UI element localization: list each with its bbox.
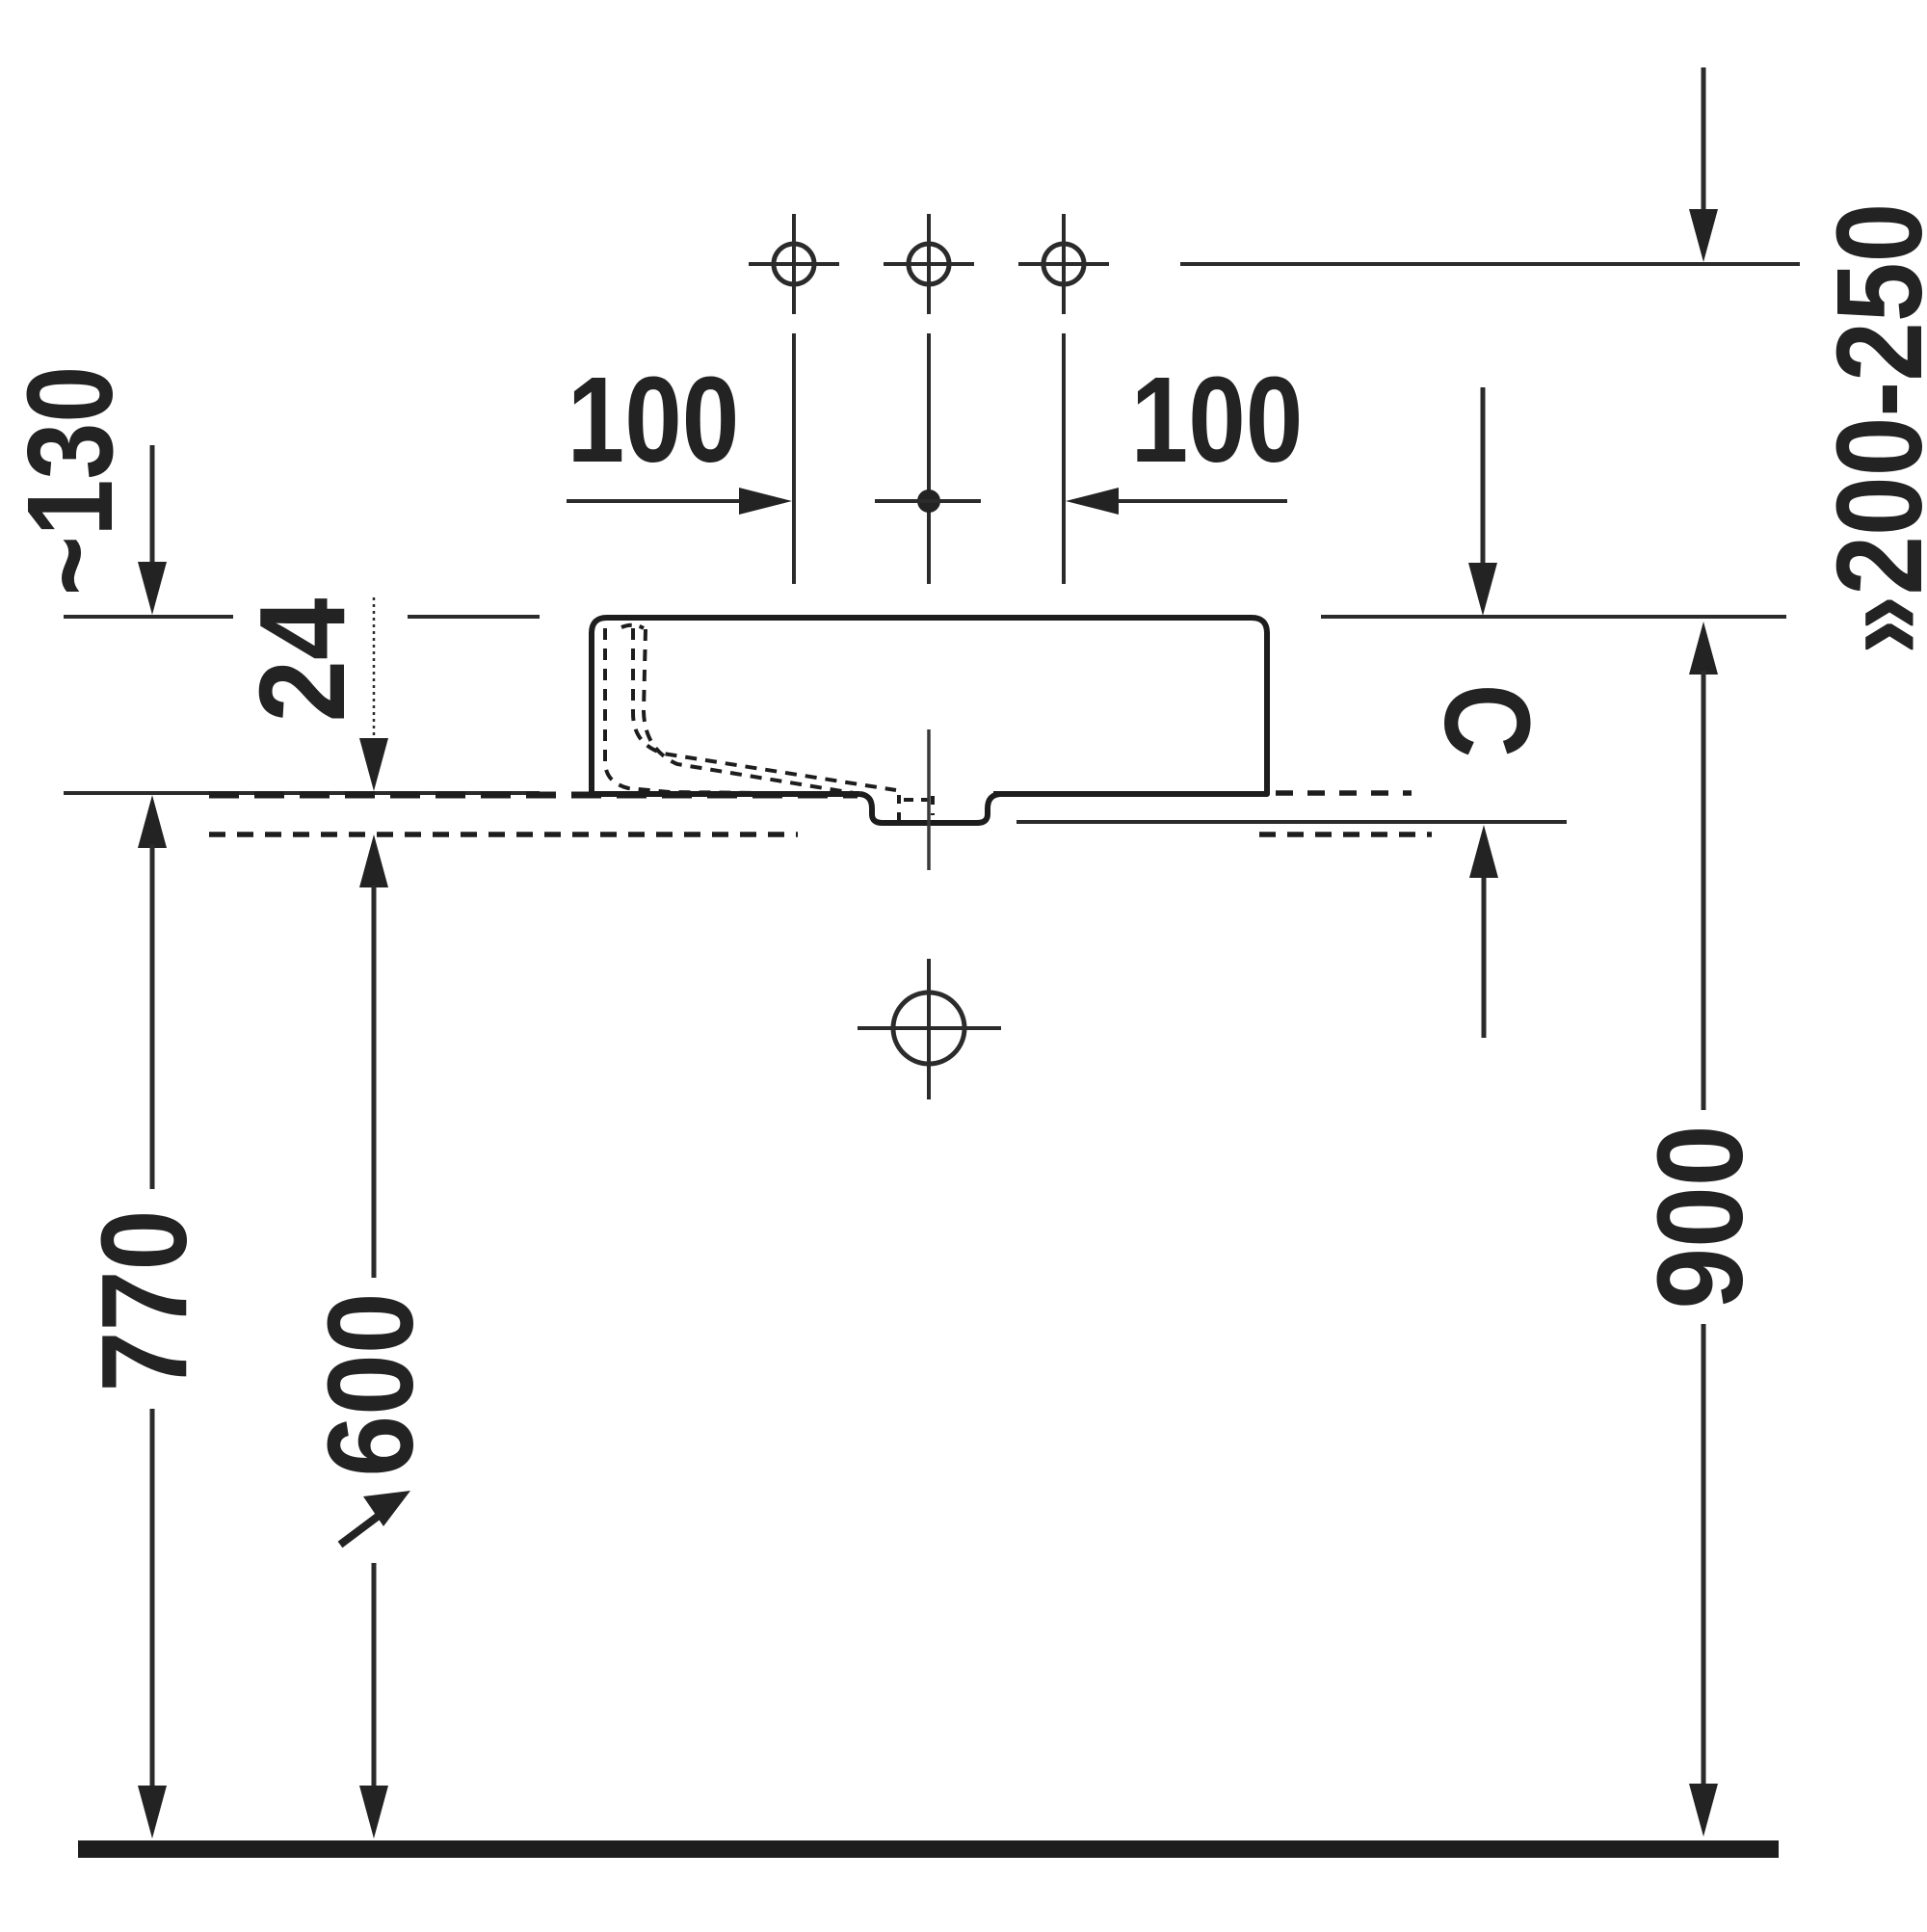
lower reference line right (C dimension base) (1016, 820, 1567, 824)
washbasin outline (592, 618, 1267, 794)
faucet hole 2 crosshair circle (884, 214, 974, 314)
top arrow from above to reference line (1689, 67, 1718, 262)
faucet hole 1 crosshair circle (749, 214, 839, 314)
faucet hole 1 centerline (792, 333, 796, 584)
dimension 770 vertical line with arrows (138, 795, 167, 1839)
svg-text:770: 770 (76, 1209, 212, 1391)
svg-text:~130: ~130 (2, 366, 138, 595)
faucet hole 2 centerline (927, 333, 931, 584)
lower counter level: left dashed line (209, 832, 798, 837)
dimension 100 left: line and arrow (567, 488, 792, 515)
drain centerline (927, 729, 931, 870)
drain outlet hidden lines (dashed) (899, 795, 933, 823)
basin interior hidden contour inner lower (dashed) (644, 629, 854, 793)
svg-text:900: 900 (1632, 1125, 1768, 1309)
lower counter level: right dashed line (1259, 832, 1432, 837)
svg-text:100: 100 (568, 352, 740, 488)
northeast pointer arrow near 600 (340, 1491, 410, 1545)
right reference line at sink top level (1321, 615, 1786, 619)
center reference dot on hole 2 (875, 490, 981, 513)
basin interior wall top arc (dashed) (621, 625, 644, 628)
basin interior hidden contour inner upper (dashed) (633, 628, 896, 790)
washbasin drain recess (859, 794, 1000, 823)
top reference line (mirror height) (1180, 262, 1800, 266)
svg-text:600: 600 (303, 1292, 438, 1476)
svg-text:C: C (1419, 684, 1555, 757)
dimension 24 dotted line and arrow (359, 597, 388, 791)
counter top level: left solid thin line (64, 791, 540, 795)
counter top level: left thick dashed line (209, 792, 858, 799)
dimension 600 vertical line with arrows (359, 834, 388, 1839)
counter top level: right dashed line (1276, 790, 1412, 796)
left reference line at sink top level (64, 615, 233, 619)
dimension 100 right: line and arrow (1066, 488, 1287, 515)
floor line (78, 1840, 1779, 1858)
second top arrow (C dimension upper arrow) (1468, 387, 1497, 616)
reference stub right of 24 (408, 615, 540, 619)
svg-text:100: 100 (1131, 352, 1304, 488)
svg-text:»200-250: »200-250 (1812, 203, 1927, 655)
dimension ~130 arrow line (138, 445, 167, 615)
faucet hole 3 crosshair circle (1018, 214, 1109, 314)
faucet hole 3 centerline (1062, 333, 1066, 584)
svg-text:24: 24 (234, 598, 371, 723)
C dimension lower arrow (1469, 825, 1498, 1038)
basin interior hidden contour outer (dashed) (605, 628, 858, 794)
drain hole crosshair circle (858, 959, 1001, 1099)
dimension 900 vertical line with arrows (1689, 622, 1718, 1837)
